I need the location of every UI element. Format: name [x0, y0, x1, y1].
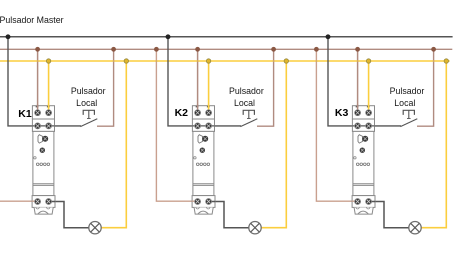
- node: crossing tint where phase wires pass neutral bus (K1): [37, 60, 39, 62]
- relay K2 contact terminal 1: [195, 199, 201, 205]
- wire: master line down to K1 pin B1: [8, 37, 81, 126]
- relay K2 face: LED: [194, 157, 196, 159]
- wire: neutral bus (yellow): [0, 60, 450, 62]
- wire: K3 contact output to lamp E3: [369, 202, 409, 228]
- node: crossing tint where phase wires pass neutral bus (K2): [197, 60, 199, 62]
- svg-text:Pulsador Master: Pulsador Master: [0, 15, 64, 25]
- relay K1 terminal A1: [35, 110, 41, 116]
- relay K3 (DIN impulse relay) body: [352, 106, 375, 214]
- wire: K2 contact output to lamp E2: [209, 202, 249, 228]
- svg-text:Local: Local: [394, 98, 415, 108]
- node: neutral bus junction for lamp E3: [444, 59, 448, 63]
- wire: phase stub into K2 coil terminal A1: [197, 105, 199, 113]
- relay K2 terminal B2: [206, 123, 212, 129]
- pushbutton S2 (Pulsador Local, NO momentary): [240, 110, 257, 126]
- wire: phase feed stub into K3 contact terminal: [352, 200, 358, 202]
- lamp E3: [409, 222, 421, 234]
- wire: K3 row-2 internal link: [352, 125, 374, 127]
- node: phase bus junction for K2 coil: [195, 47, 200, 52]
- node: neutral bus junction for lamp E2: [284, 59, 288, 63]
- svg-text:K1: K1: [18, 108, 32, 120]
- relay K3 contact terminal 2: [366, 199, 372, 205]
- wire: master pushbutton bus (black): [0, 36, 453, 38]
- svg-text:Pulsador: Pulsador: [71, 86, 106, 96]
- relay K3 face: LED: [354, 157, 356, 159]
- node: master bus junction for K2: [166, 34, 171, 39]
- relay K3 terminal B2: [366, 123, 372, 129]
- relay K2 face: vent holes: [196, 163, 209, 166]
- wire: neutral stub into K2 coil terminal A2: [208, 105, 210, 113]
- wire: lamp E3 return to neutral: [421, 61, 446, 228]
- relay K3 face: vent holes: [356, 163, 369, 166]
- wire: phase stub into K3 coil terminal A1: [357, 105, 359, 113]
- node: neutral bus junction for K3 coil: [366, 59, 370, 63]
- wire: phase to K1 coil A1: [37, 49, 39, 112]
- relay K2 terminal A1: [195, 110, 201, 116]
- relay K3 contact terminal 1: [355, 199, 361, 205]
- node: phase bus junction for K3 coil: [355, 47, 360, 52]
- wire: phase down to pushbutton S1: [97, 49, 114, 126]
- relay K3 face: coil symbol: [358, 135, 363, 143]
- wire: master line down to K3 pin B1: [328, 37, 401, 126]
- node: crossing tint where phase wires pass neutral bus (K3): [357, 60, 359, 62]
- wire: lamp E1 return to neutral: [101, 61, 126, 228]
- wire: neutral stub into K1 coil terminal A2: [48, 105, 50, 113]
- relay K2 contact terminal 2: [206, 199, 212, 205]
- wire: lamp wire stub from K3 contact terminal: [369, 201, 376, 203]
- wire: lamp E2 return to neutral: [261, 61, 286, 228]
- relay K1 face: vent holes: [36, 163, 49, 166]
- relay K2 face: coil symbol: [198, 135, 203, 143]
- wire: phase to K3 coil A1: [357, 49, 359, 112]
- relay K2 terminal A2: [206, 110, 212, 116]
- wire: phase feed to K3 contact: [316, 49, 357, 201]
- relay K3 face: selector knob: [360, 148, 365, 153]
- wire: neutral stub into K3 coil terminal A2: [368, 105, 370, 113]
- svg-text:Local: Local: [76, 98, 97, 108]
- svg-text:Pulsador: Pulsador: [229, 86, 264, 96]
- wire: phase feed to K1 contact (from left edge): [0, 200, 38, 202]
- pushbutton S1 (Pulsador Local, NO momentary): [80, 110, 97, 126]
- wire: neutral to K1 coil A2: [48, 61, 50, 112]
- node: master bus junction for K3: [326, 34, 331, 39]
- wire: phase feed stub into K1 contact terminal: [32, 200, 38, 202]
- wire: master line down to K2 pin B1: [168, 37, 241, 126]
- svg-text:Pulsador: Pulsador: [390, 86, 425, 96]
- relay K3 terminal A1: [355, 110, 361, 116]
- wire: neutral to K3 coil A2: [368, 61, 370, 112]
- relay K1 (DIN impulse relay) body: [32, 106, 55, 214]
- pushbutton S3 (Pulsador Local, NO momentary): [400, 110, 417, 126]
- relay K1 face: coil symbol: [38, 135, 43, 143]
- wire: phase down to pushbutton S3: [417, 49, 434, 126]
- node: phase bus junction for pushbutton S3: [431, 47, 436, 52]
- wire: K1 row-2 internal link: [32, 125, 54, 127]
- wire: phase bus (brown): [0, 48, 452, 50]
- node: phase bus junction for pushbutton S2: [271, 47, 276, 52]
- svg-text:K3: K3: [335, 107, 349, 119]
- wire: K2 row-2 internal link: [192, 125, 214, 127]
- relay K1 face: selector knob: [40, 148, 45, 153]
- relay K2 (DIN impulse relay) body: [192, 106, 215, 214]
- wire: phase feed to K2 contact: [156, 49, 197, 201]
- relay K1 terminal A2: [46, 110, 52, 116]
- relay K3 terminal B1: [355, 123, 361, 129]
- wire: lamp wire stub from K2 contact terminal: [209, 201, 216, 203]
- wire: neutral to K2 coil A2: [208, 61, 210, 112]
- node: master bus junction for K1: [6, 34, 11, 39]
- node: neutral bus junction for lamp E1: [124, 59, 128, 63]
- node: phase bus junction for K1 coil: [35, 47, 40, 52]
- wire: phase feed stub into K2 contact terminal: [192, 200, 198, 202]
- wire: phase to K2 coil A1: [197, 49, 199, 112]
- svg-text:K2: K2: [175, 107, 189, 119]
- lamp E1: [89, 222, 101, 234]
- relay K2 terminal B1: [195, 123, 201, 129]
- node: neutral bus junction for K2 coil: [206, 59, 210, 63]
- wire: lamp wire stub from K1 contact terminal: [49, 201, 56, 203]
- relay K1 terminal B2: [46, 123, 52, 129]
- relay K3 terminal A2: [366, 110, 372, 116]
- node: phase bus junction for K3 contact feed: [314, 47, 319, 52]
- wire: phase stub into K1 coil terminal A1: [37, 105, 39, 113]
- svg-text:Local: Local: [234, 98, 255, 108]
- node: neutral bus junction for K1 coil: [46, 59, 50, 63]
- node: phase bus junction for K2 contact feed: [154, 47, 159, 52]
- node: phase bus junction for pushbutton S1: [111, 47, 116, 52]
- lamp E2: [249, 222, 261, 234]
- relay K1 contact terminal 1: [35, 199, 41, 205]
- relay K1 contact terminal 2: [46, 199, 52, 205]
- wire: K1 contact output to lamp E1: [49, 202, 89, 228]
- relay K2 face: selector knob: [200, 148, 205, 153]
- relay K1 face: LED: [34, 157, 36, 159]
- wire: phase down to pushbutton S2: [257, 49, 274, 126]
- relay K1 terminal B1: [35, 123, 41, 129]
